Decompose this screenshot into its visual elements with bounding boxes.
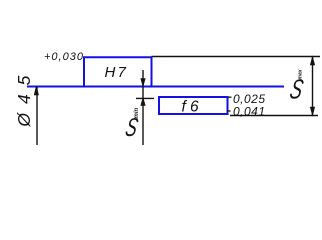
svg-text:H7: H7 <box>105 64 129 81</box>
label Smax (S with rotated subscript max) <box>287 69 306 105</box>
svg-text:min: min <box>134 107 140 118</box>
label Smin (S with rotated subscript min) <box>123 107 141 141</box>
node Smax dimension line with arrows <box>310 57 314 116</box>
wire: zero line (nominal size line, blue) <box>27 86 284 88</box>
node Smin dimension line with outside arrows <box>141 70 145 145</box>
label -0,041 (lower deviation of shaft): minus dash <box>227 110 231 112</box>
node nominal diameter arrow line (left) <box>34 87 38 146</box>
wire: top extension line from H7 upper edge (black) <box>152 56 321 58</box>
svg-text:0,041: 0,041 <box>233 105 266 119</box>
svg-text:f6: f6 <box>182 99 203 116</box>
svg-text:+0,030: +0,030 <box>44 51 84 63</box>
svg-text:Ø45: Ø45 <box>14 75 34 127</box>
wire: extension tick of f6 top edge to the left <box>136 97 154 99</box>
node H7: hole tolerance zone box <box>84 57 152 86</box>
svg-text:max: max <box>297 69 303 79</box>
node f6: shaft tolerance zone box <box>159 97 228 114</box>
wire: bottom extension line from f6 lower edge (black) <box>230 115 318 117</box>
label -0,025 (upper deviation of shaft): minus dash <box>228 96 232 98</box>
